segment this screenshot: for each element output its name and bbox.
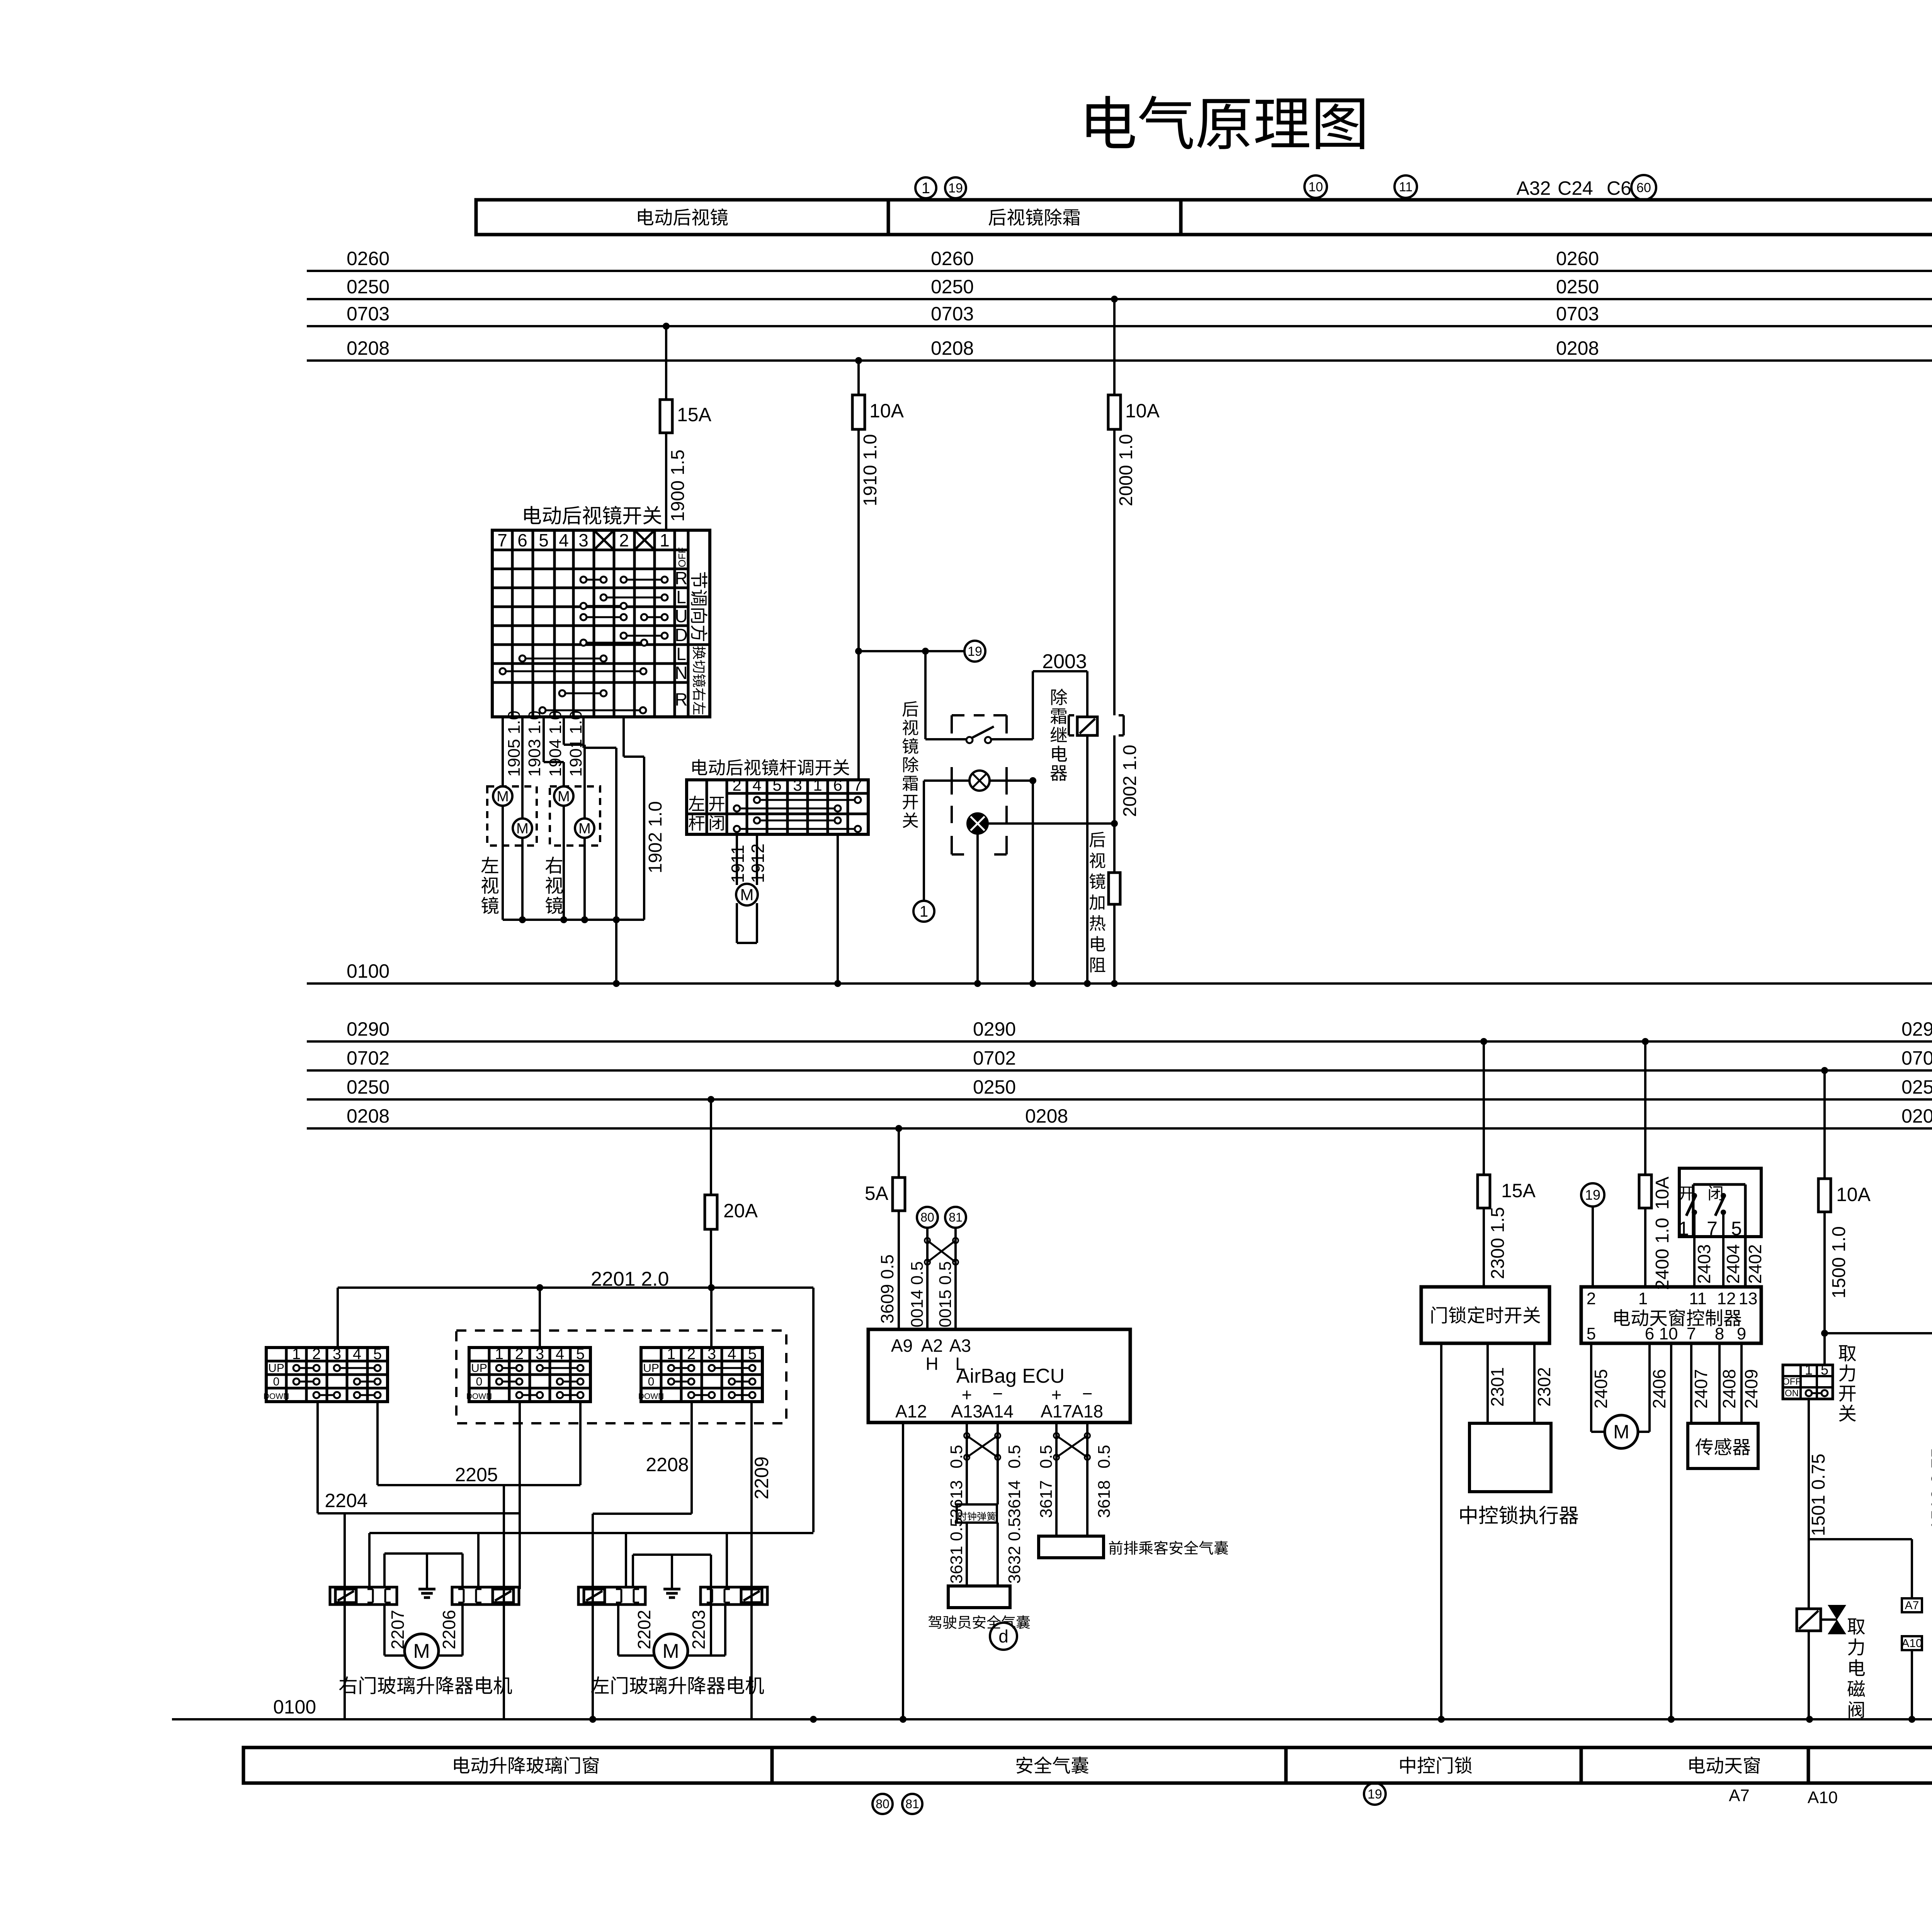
svg-text:2400 1.0: 2400 1.0 bbox=[1652, 1218, 1673, 1290]
svg-text:0290: 0290 bbox=[973, 1018, 1016, 1040]
svg-text:2407: 2407 bbox=[1691, 1369, 1711, 1409]
AirBag ECU box bbox=[868, 1329, 1130, 1423]
node 60 bbox=[1631, 175, 1656, 200]
svg-text:3: 3 bbox=[333, 1346, 341, 1363]
svg-text:81: 81 bbox=[949, 1210, 963, 1224]
wire 3632 bbox=[997, 1523, 999, 1586]
svg-text:UP: UP bbox=[643, 1362, 659, 1375]
connector A10 bbox=[1902, 1636, 1922, 1650]
wire to node 19 bbox=[858, 650, 964, 652]
svg-text:3632 0.5: 3632 0.5 bbox=[1005, 1518, 1024, 1584]
svg-text:UP: UP bbox=[268, 1362, 284, 1375]
rod switch box bbox=[687, 780, 868, 834]
label 后视镜除霜开关 bbox=[902, 701, 918, 716]
wire 2204 drop bbox=[344, 1513, 346, 1719]
label 取力开关 bbox=[1839, 1345, 1856, 1361]
wire 1902 bbox=[622, 717, 625, 757]
wire 2400 bbox=[1644, 1208, 1646, 1287]
wire 3609 bbox=[898, 1211, 900, 1329]
svg-text:1905 1.0: 1905 1.0 bbox=[505, 711, 524, 777]
svg-text:1: 1 bbox=[922, 180, 930, 197]
wire 3631 bbox=[966, 1523, 968, 1586]
mirror switch contacts bbox=[583, 579, 604, 581]
svg-text:0208: 0208 bbox=[931, 337, 974, 359]
wire coil to bus bbox=[1808, 1631, 1810, 1719]
wire main drop bbox=[592, 1514, 594, 1719]
svg-text:0250: 0250 bbox=[347, 1076, 389, 1098]
junction 0100 lower bbox=[1668, 1716, 1675, 1723]
junctions bbox=[519, 916, 526, 923]
right mirror motor M4 bbox=[575, 818, 594, 838]
lamp dashes bbox=[951, 767, 953, 795]
wire 1905 bbox=[502, 717, 504, 786]
node 81 bottom bbox=[902, 1794, 922, 1814]
svg-text:AirBag ECU: AirBag ECU bbox=[956, 1365, 1065, 1387]
junction bbox=[855, 648, 862, 655]
svg-text:2406: 2406 bbox=[1649, 1369, 1669, 1409]
wire to fuse bbox=[1823, 1070, 1826, 1179]
svg-text:10: 10 bbox=[1659, 1324, 1678, 1343]
label 左杆 bbox=[689, 796, 704, 811]
central lock actuator box bbox=[1469, 1423, 1551, 1492]
svg-text:0703: 0703 bbox=[347, 303, 389, 325]
svg-text:3: 3 bbox=[578, 530, 588, 550]
svg-text:2402: 2402 bbox=[1745, 1244, 1765, 1284]
svg-text:A2: A2 bbox=[921, 1336, 943, 1356]
svg-text:2: 2 bbox=[312, 1346, 321, 1363]
svg-text:10A: 10A bbox=[869, 400, 904, 422]
svg-text:5A: 5A bbox=[865, 1183, 889, 1204]
svg-text:M: M bbox=[516, 820, 529, 837]
svg-text:9: 9 bbox=[1737, 1324, 1746, 1343]
passenger airbag box bbox=[1039, 1536, 1104, 1558]
svg-text:M: M bbox=[497, 788, 509, 805]
svg-text:A32: A32 bbox=[1517, 177, 1551, 199]
wire 2402 bbox=[1744, 1184, 1747, 1287]
svg-text:A7: A7 bbox=[1905, 1599, 1919, 1612]
svg-text:1: 1 bbox=[920, 903, 928, 920]
relay 2003 contact brackets bbox=[1068, 715, 1070, 735]
branch to A7 bbox=[1809, 1538, 1912, 1540]
label 取力电磁阀 bbox=[1848, 1618, 1865, 1635]
label 驾驶员安全气囊 bbox=[928, 1615, 941, 1629]
junction 0100 bbox=[974, 980, 981, 987]
ground bbox=[418, 1588, 435, 1591]
connector A7 bbox=[1902, 1598, 1922, 1612]
wire 1903 bbox=[521, 717, 524, 818]
wire 2409 bbox=[1740, 1343, 1743, 1423]
svg-text:0.5: 0.5 bbox=[947, 1445, 966, 1468]
junction 0100 bbox=[1084, 980, 1091, 987]
sunroof switch inner box bbox=[1692, 1184, 1695, 1237]
svg-text:1903 1.0: 1903 1.0 bbox=[525, 711, 544, 777]
wire to fuse bbox=[1644, 1041, 1646, 1175]
svg-text:0702: 0702 bbox=[1901, 1047, 1932, 1069]
svg-text:A7: A7 bbox=[1729, 1786, 1750, 1805]
svg-text:H: H bbox=[925, 1354, 938, 1374]
junction bbox=[1821, 1330, 1828, 1337]
svg-text:60: 60 bbox=[1636, 180, 1651, 195]
node 19 circle bbox=[964, 641, 985, 662]
left-door relay strip R bbox=[701, 1587, 767, 1605]
fuse F3 10A bbox=[1108, 395, 1121, 429]
rod switch contacts bbox=[757, 799, 858, 801]
svg-text:A10: A10 bbox=[1901, 1637, 1922, 1650]
rod motor return bbox=[736, 903, 738, 943]
bus 0250 bbox=[307, 1098, 1932, 1101]
svg-text:2204: 2204 bbox=[325, 1490, 367, 1511]
svg-text:2: 2 bbox=[732, 776, 741, 794]
wire 1911 bbox=[736, 834, 738, 885]
svg-text:1902 1.0: 1902 1.0 bbox=[645, 801, 666, 873]
svg-text:10: 10 bbox=[1308, 180, 1323, 194]
svg-text:1510 0.75: 1510 0.75 bbox=[1928, 1448, 1932, 1530]
svg-text:2301: 2301 bbox=[1487, 1367, 1507, 1407]
svg-text:5: 5 bbox=[1821, 1362, 1828, 1378]
junction on 0250 bbox=[1111, 296, 1118, 303]
bar divider bbox=[770, 1748, 774, 1783]
svg-text:2: 2 bbox=[515, 1346, 524, 1363]
wire to fuse 20A bbox=[710, 1099, 712, 1195]
svg-text:M: M bbox=[1613, 1421, 1629, 1443]
label 右视镜 bbox=[545, 857, 562, 874]
svg-text:7: 7 bbox=[853, 776, 862, 794]
svg-text:+: + bbox=[962, 1385, 972, 1405]
left mirror dashed box bbox=[487, 786, 537, 846]
svg-text:0290: 0290 bbox=[1901, 1018, 1932, 1040]
bus 0702 bbox=[307, 1069, 1932, 1072]
wire A10 to bus bbox=[1911, 1650, 1913, 1719]
wire 2201 to switch3 bbox=[710, 1288, 713, 1348]
svg-text:11: 11 bbox=[1399, 180, 1412, 194]
wire 0014 bbox=[926, 1228, 929, 1329]
wire sw1-5 drop bbox=[376, 1402, 379, 1485]
label 左视镜 bbox=[481, 857, 498, 873]
wire 3614 bbox=[997, 1423, 999, 1504]
svg-text:5: 5 bbox=[772, 776, 781, 794]
label 电动升降玻璃门窗 bbox=[454, 1757, 469, 1773]
bus 0208 bbox=[307, 1127, 1932, 1130]
svg-text:0250: 0250 bbox=[973, 1076, 1016, 1098]
svg-text:3614: 3614 bbox=[1005, 1480, 1024, 1518]
bus 0290 bbox=[307, 1040, 1932, 1043]
svg-text:0702: 0702 bbox=[973, 1047, 1016, 1069]
svg-text:M: M bbox=[662, 1640, 679, 1662]
svg-text:M: M bbox=[578, 820, 591, 837]
fuse 5A bbox=[893, 1178, 905, 1211]
title 电气原理图 bbox=[1087, 96, 1135, 148]
svg-text:0015 0.5: 0015 0.5 bbox=[936, 1261, 955, 1327]
wire H3 d1 bbox=[368, 1533, 371, 1587]
junction bbox=[1111, 820, 1118, 827]
junction 0100 lower bbox=[1438, 1716, 1445, 1723]
door lock left wire bbox=[1440, 1343, 1442, 1719]
svg-text:2203: 2203 bbox=[689, 1610, 709, 1649]
wire 1501 bbox=[1808, 1399, 1810, 1609]
label 传感器 bbox=[1696, 1438, 1713, 1455]
svg-text:M: M bbox=[740, 886, 754, 904]
svg-text:0.5: 0.5 bbox=[1037, 1445, 1056, 1468]
wire 0015 bbox=[954, 1228, 957, 1329]
label 电动天窗控制器 bbox=[1614, 1309, 1630, 1326]
svg-text:7: 7 bbox=[1687, 1324, 1696, 1343]
svg-text:4: 4 bbox=[353, 1346, 361, 1363]
wire H18 bbox=[1825, 1332, 1932, 1334]
node 19 bottom bbox=[1364, 1783, 1386, 1805]
right-door relay strip L bbox=[330, 1587, 397, 1605]
svg-text:8: 8 bbox=[1715, 1324, 1724, 1343]
relay coil to bus bbox=[1086, 735, 1088, 984]
svg-text:0702: 0702 bbox=[347, 1047, 389, 1069]
svg-text:C6: C6 bbox=[1607, 177, 1631, 199]
svg-text:1: 1 bbox=[1678, 1218, 1689, 1239]
sunroof controller box bbox=[1581, 1287, 1761, 1343]
defrost switch brackets bbox=[952, 714, 964, 716]
bar divider bbox=[1179, 200, 1183, 235]
svg-text:A9: A9 bbox=[891, 1336, 913, 1356]
svg-text:U: U bbox=[675, 606, 687, 626]
label 电动后视镜开关 bbox=[524, 506, 541, 524]
svg-text:4: 4 bbox=[559, 530, 569, 550]
svg-text:6: 6 bbox=[517, 530, 527, 550]
svg-text:2202: 2202 bbox=[634, 1610, 654, 1649]
label 电动天窗 bbox=[1689, 1757, 1705, 1773]
wire 2404 bbox=[1722, 1212, 1725, 1287]
bar divider bbox=[1807, 1748, 1810, 1783]
junction on 0250 bbox=[707, 1096, 714, 1103]
svg-text:19: 19 bbox=[968, 644, 982, 659]
svg-text:5: 5 bbox=[539, 530, 549, 550]
svg-text:1: 1 bbox=[660, 530, 670, 550]
wire 1910 bbox=[857, 429, 860, 780]
wire from pin3 bbox=[582, 717, 585, 748]
wire sw1-2 drop bbox=[316, 1402, 319, 1513]
label 左右镜切换 bbox=[693, 646, 706, 715]
left-door relay strip L bbox=[578, 1587, 645, 1605]
svg-text:M: M bbox=[413, 1640, 430, 1662]
wire 3618 bbox=[1086, 1423, 1088, 1536]
svg-text:5: 5 bbox=[748, 1346, 757, 1363]
svg-text:L: L bbox=[676, 644, 686, 664]
svg-text:1: 1 bbox=[667, 1346, 675, 1363]
svg-text:A18: A18 bbox=[1071, 1401, 1103, 1421]
svg-text:19: 19 bbox=[1585, 1187, 1600, 1203]
wire 1500 bbox=[1823, 1212, 1826, 1365]
svg-text:15A: 15A bbox=[1501, 1180, 1536, 1201]
bus 0100 bbox=[307, 982, 1932, 985]
fuse 10A pto bbox=[1818, 1179, 1831, 1212]
right-door motor M bbox=[405, 1634, 439, 1668]
bottom section bar bbox=[243, 1748, 1932, 1783]
svg-text:A10: A10 bbox=[1808, 1788, 1838, 1807]
mirror common wire bbox=[503, 919, 644, 921]
rod switch grid bbox=[706, 780, 708, 834]
junction bbox=[1029, 777, 1036, 784]
left-door rail bbox=[633, 1554, 711, 1556]
mirror switch grid bbox=[511, 530, 514, 717]
svg-text:4: 4 bbox=[752, 776, 761, 794]
junction bbox=[536, 1284, 543, 1291]
bar divider bbox=[1580, 1748, 1583, 1783]
sunroof switch contacts bbox=[1692, 1193, 1697, 1198]
svg-text:19: 19 bbox=[1367, 1787, 1382, 1802]
junction 0100 lower bbox=[589, 1716, 596, 1723]
junction 0100 bbox=[1111, 980, 1118, 987]
wire 2301 bbox=[1486, 1343, 1489, 1423]
svg-text:−: − bbox=[993, 1383, 1003, 1404]
wire 3617 bbox=[1055, 1423, 1058, 1536]
svg-text:2002 1.0: 2002 1.0 bbox=[1120, 745, 1140, 817]
wire H4 bbox=[593, 1513, 692, 1515]
svg-text:1: 1 bbox=[292, 1346, 301, 1363]
master switch dashed box bbox=[456, 1331, 786, 1423]
svg-text:R: R bbox=[675, 568, 687, 588]
junction 0100 lower bbox=[810, 1716, 817, 1723]
svg-text:2403: 2403 bbox=[1694, 1244, 1714, 1284]
relay 2003 coil bbox=[1077, 717, 1097, 735]
fuse 10A sunroof bbox=[1639, 1175, 1651, 1208]
svg-text:0208: 0208 bbox=[1025, 1105, 1068, 1127]
wire H3 d2 bbox=[477, 1533, 480, 1587]
left mirror motor M1 bbox=[493, 786, 512, 806]
svg-text:2405: 2405 bbox=[1591, 1369, 1611, 1409]
wire 2302 bbox=[1533, 1343, 1536, 1423]
svg-text:DOWN: DOWN bbox=[264, 1392, 289, 1401]
lamp1 indicator bbox=[969, 771, 990, 791]
svg-text:0250: 0250 bbox=[1901, 1076, 1932, 1098]
label 中控门锁 bbox=[1400, 1757, 1415, 1774]
label 开闭 bbox=[709, 797, 724, 812]
left mirror motor M2 bbox=[513, 818, 532, 838]
lamp2 wire right bbox=[988, 822, 1114, 825]
wire H3 d3 bbox=[625, 1533, 627, 1587]
svg-text:6: 6 bbox=[1645, 1324, 1654, 1343]
wire A12 to bus bbox=[902, 1423, 904, 1719]
svg-text:1: 1 bbox=[1805, 1362, 1813, 1378]
fuse F1 15A bbox=[660, 400, 672, 433]
svg-text:0250: 0250 bbox=[347, 276, 389, 298]
right mirror motor M3 bbox=[554, 786, 573, 806]
svg-text:1901 1.0: 1901 1.0 bbox=[566, 711, 585, 777]
svg-text:0208: 0208 bbox=[347, 1105, 389, 1127]
svg-text:1: 1 bbox=[1638, 1289, 1648, 1308]
svg-text:M: M bbox=[558, 788, 570, 805]
svg-text:3617: 3617 bbox=[1037, 1480, 1056, 1518]
label 时钟弹簧 bbox=[958, 1512, 967, 1521]
defrost sw right wire to bus bbox=[1032, 781, 1034, 984]
svg-text:2: 2 bbox=[687, 1346, 696, 1363]
svg-text:0260: 0260 bbox=[347, 248, 389, 269]
junction 0100 lower bbox=[900, 1716, 906, 1723]
svg-text:1910 1.0: 1910 1.0 bbox=[860, 434, 881, 506]
svg-text:0.5: 0.5 bbox=[1095, 1445, 1114, 1468]
svg-text:2408: 2408 bbox=[1719, 1369, 1739, 1409]
svg-text:+: + bbox=[1051, 1385, 1062, 1405]
svg-text:0250: 0250 bbox=[931, 276, 974, 298]
wire 1901 bbox=[563, 717, 565, 745]
wire 3613 bbox=[966, 1423, 968, 1504]
wire to fuse F1 bbox=[665, 326, 667, 400]
right-door motor wires bbox=[383, 1605, 386, 1656]
wire 2002 bbox=[1113, 735, 1116, 873]
svg-text:2302: 2302 bbox=[1534, 1367, 1554, 1407]
driver airbag box bbox=[948, 1586, 1010, 1608]
svg-text:3: 3 bbox=[793, 776, 802, 794]
bus 0100 lower bbox=[172, 1718, 1932, 1720]
svg-text:2205: 2205 bbox=[455, 1464, 498, 1485]
wire sw3-5 drop 2209 bbox=[750, 1402, 753, 1719]
svg-text:1904 1.0: 1904 1.0 bbox=[546, 711, 565, 777]
svg-text:5: 5 bbox=[373, 1346, 382, 1363]
svg-text:4: 4 bbox=[556, 1346, 564, 1363]
svg-text:ON: ON bbox=[1785, 1388, 1799, 1399]
PTO switch bbox=[1783, 1365, 1833, 1399]
label 电动后视镜杆调开关 bbox=[692, 759, 707, 775]
bar label 电动后视镜 bbox=[638, 209, 653, 225]
clock spring box bbox=[957, 1504, 997, 1523]
svg-text:−: − bbox=[1082, 1383, 1093, 1404]
wire sw2-2 drop bbox=[519, 1402, 521, 1589]
node 80 bottom bbox=[872, 1794, 893, 1814]
label 右门玻璃升降器电机 bbox=[339, 1676, 357, 1694]
svg-text:0260: 0260 bbox=[931, 248, 974, 269]
svg-text:1912: 1912 bbox=[748, 844, 768, 883]
svg-text:2409: 2409 bbox=[1741, 1369, 1761, 1409]
svg-text:5: 5 bbox=[576, 1346, 585, 1363]
svg-text:2300 1.5: 2300 1.5 bbox=[1488, 1207, 1508, 1279]
svg-text:0: 0 bbox=[273, 1375, 280, 1388]
svg-text:L: L bbox=[676, 587, 686, 607]
wire 2300 bbox=[1483, 1208, 1485, 1287]
svg-text:A3: A3 bbox=[949, 1336, 971, 1356]
twisted pair bbox=[1056, 1436, 1087, 1457]
label 前排乘客安全气囊 bbox=[1109, 1541, 1122, 1555]
window switch right-door bbox=[266, 1348, 388, 1402]
wire 2403 bbox=[1693, 1212, 1696, 1287]
junction 0100 bbox=[613, 980, 620, 987]
svg-text:80: 80 bbox=[920, 1210, 934, 1224]
svg-text:OFF: OFF bbox=[1782, 1377, 1801, 1387]
svg-text:10A: 10A bbox=[1125, 400, 1160, 422]
svg-text:2208: 2208 bbox=[646, 1454, 689, 1475]
svg-text:2206: 2206 bbox=[439, 1610, 459, 1649]
node 10 bbox=[1304, 175, 1327, 198]
svg-text:0703: 0703 bbox=[931, 303, 974, 325]
svg-text:2: 2 bbox=[619, 530, 629, 550]
svg-text:DOWN: DOWN bbox=[638, 1392, 664, 1401]
wire 1904 bbox=[543, 717, 545, 762]
wire to fuse F3 bbox=[1113, 299, 1116, 395]
svg-text:4: 4 bbox=[728, 1346, 736, 1363]
svg-text:11: 11 bbox=[1689, 1289, 1707, 1308]
svg-text:20A: 20A bbox=[723, 1200, 758, 1222]
svg-text:3: 3 bbox=[536, 1346, 544, 1363]
svg-text:15A: 15A bbox=[677, 404, 712, 425]
svg-text:1900 1.5: 1900 1.5 bbox=[668, 449, 688, 522]
svg-text:2209: 2209 bbox=[751, 1457, 772, 1499]
label 后视镜加热电阻 bbox=[1089, 832, 1105, 847]
label 闭 bbox=[1709, 1186, 1723, 1200]
mirror motor return wires bbox=[502, 806, 504, 920]
right mirror dashed box bbox=[550, 786, 600, 846]
left-door motor wires bbox=[617, 1605, 619, 1656]
label 门锁定时开关 bbox=[1431, 1307, 1446, 1324]
svg-text:3609 0.5: 3609 0.5 bbox=[877, 1254, 897, 1324]
svg-text:7: 7 bbox=[497, 530, 507, 550]
label 左门玻璃升降器电机 bbox=[591, 1676, 609, 1694]
svg-text:5: 5 bbox=[1731, 1218, 1742, 1239]
right-door rail bbox=[384, 1552, 463, 1555]
